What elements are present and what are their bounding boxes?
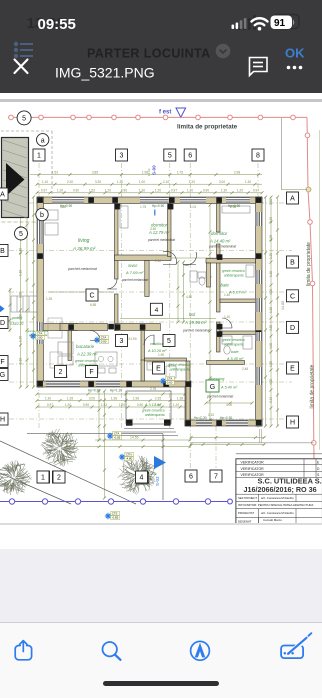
svg-text:PARTER LOCUINTA: PARTER LOCUINTA xyxy=(87,47,211,61)
svg-text:OK: OK xyxy=(285,46,305,61)
svg-text:baie: baie xyxy=(221,283,230,288)
svg-text:A 3.12 m²: A 3.12 m² xyxy=(144,403,162,407)
svg-text:Hp=0.90: Hp=0.90 xyxy=(152,204,164,208)
svg-text:2.10: 2.10 xyxy=(163,180,169,184)
svg-text:arh. Constanca M.Danillu: arh. Constanca M.Danillu xyxy=(261,511,294,515)
svg-text:1.75: 1.75 xyxy=(140,205,146,209)
svg-text:0.97: 0.97 xyxy=(41,189,47,193)
svg-text:parchet melaminat: parchet melaminat xyxy=(67,267,98,271)
svg-text:E: E xyxy=(156,366,161,373)
svg-text:1: 1 xyxy=(41,475,45,482)
svg-text:a: a xyxy=(41,137,45,144)
svg-text:1.30: 1.30 xyxy=(221,189,227,193)
svg-text:4.00: 4.00 xyxy=(269,289,273,295)
svg-text:1.75: 1.75 xyxy=(177,170,183,174)
svg-text:S-03: S-03 xyxy=(155,476,160,486)
svg-text:1.30: 1.30 xyxy=(45,397,51,401)
svg-text:2.60: 2.60 xyxy=(155,259,161,263)
svg-text:G: G xyxy=(0,372,5,379)
svg-text:2.30: 2.30 xyxy=(67,180,73,184)
svg-text:gresie ceramica: gresie ceramica xyxy=(142,409,165,413)
svg-text:1.30: 1.30 xyxy=(19,336,23,342)
svg-text:7: 7 xyxy=(214,474,218,481)
svg-text:0.00: 0.00 xyxy=(167,381,173,385)
svg-text:5: 5 xyxy=(167,338,171,345)
svg-text:1.52: 1.52 xyxy=(89,189,95,193)
svg-text:3.85: 3.85 xyxy=(269,199,273,205)
svg-text:S-09: S-09 xyxy=(152,165,157,175)
svg-text:1.20: 1.20 xyxy=(269,361,273,367)
svg-text:1.20: 1.20 xyxy=(65,403,71,407)
svg-text:2.10: 2.10 xyxy=(208,413,214,417)
svg-text:4.80: 4.80 xyxy=(60,205,66,209)
svg-text:4: 4 xyxy=(155,307,159,314)
svg-text:1: 1 xyxy=(37,153,41,160)
svg-text:0.90: 0.90 xyxy=(121,189,127,193)
svg-text:H: H xyxy=(290,420,295,427)
svg-text:F: F xyxy=(89,369,93,376)
svg-text:6: 6 xyxy=(188,153,192,160)
svg-text:1.01: 1.01 xyxy=(190,205,196,209)
svg-text:Cernatii Marcu: Cernatii Marcu xyxy=(263,518,282,522)
svg-text:A 22.39 m²: A 22.39 m² xyxy=(76,352,98,357)
svg-text:IMG_5321.PNG: IMG_5321.PNG xyxy=(55,65,155,81)
svg-text:1.20: 1.20 xyxy=(187,189,193,193)
svg-text:VERIFICATOR: VERIFICATOR xyxy=(241,460,265,464)
svg-text:parchet melaminat: parchet melaminat xyxy=(121,278,148,282)
svg-text:1.10: 1.10 xyxy=(42,180,48,184)
svg-text:living: living xyxy=(78,238,90,244)
svg-text:parchet melaminat: parchet melaminat xyxy=(182,329,211,333)
svg-text:b: b xyxy=(40,212,44,219)
svg-text:1.20: 1.20 xyxy=(155,189,161,193)
svg-text:4.00: 4.00 xyxy=(269,343,273,349)
svg-text:1.30: 1.30 xyxy=(245,180,251,184)
svg-text:0.97: 0.97 xyxy=(47,403,53,407)
svg-text:14.55: 14.55 xyxy=(130,436,139,440)
svg-text:parchet melaminat: parchet melaminat xyxy=(206,395,233,399)
svg-text:-0.05: -0.05 xyxy=(114,436,121,440)
svg-text:2.98: 2.98 xyxy=(230,205,236,209)
svg-text:vestibul: vestibul xyxy=(150,341,164,346)
svg-text:1.38: 1.38 xyxy=(177,397,183,401)
svg-text:A 7.09 m²: A 7.09 m² xyxy=(125,270,144,275)
svg-text:6.85: 6.85 xyxy=(90,303,96,307)
svg-text:2.45: 2.45 xyxy=(269,217,273,223)
svg-text:4: 4 xyxy=(140,475,144,482)
svg-text:podest: podest xyxy=(11,316,23,320)
svg-text:1.00: 1.00 xyxy=(139,180,145,184)
svg-text:0.90: 0.90 xyxy=(203,189,209,193)
svg-text:F: F xyxy=(0,359,4,366)
svg-text:J16/2066/2016; RO 36: J16/2066/2016; RO 36 xyxy=(244,485,317,494)
svg-text:1.20: 1.20 xyxy=(269,307,273,313)
svg-text:3.00: 3.00 xyxy=(219,180,225,184)
svg-text:A 5.40 m²: A 5.40 m² xyxy=(220,386,238,390)
svg-text:Hs=C.30: Hs=C.30 xyxy=(194,416,207,420)
svg-text:1.20: 1.20 xyxy=(237,189,243,193)
svg-text:antiderapanta: antiderapanta xyxy=(224,343,244,347)
svg-text:A 19.96 m²: A 19.96 m² xyxy=(184,320,207,325)
svg-text:1.40: 1.40 xyxy=(224,293,230,297)
svg-text:14.85: 14.85 xyxy=(281,301,285,310)
svg-text:1.90: 1.90 xyxy=(158,353,164,357)
svg-text:He=0.30: He=0.30 xyxy=(220,416,232,420)
svg-text:B: B xyxy=(0,248,5,255)
svg-text:gresie ceramica: gresie ceramica xyxy=(222,338,245,342)
svg-text:5: 5 xyxy=(22,116,26,123)
svg-text:1.20: 1.20 xyxy=(269,253,273,259)
svg-text:1.10: 1.10 xyxy=(19,270,23,276)
svg-text:dormitor: dormitor xyxy=(211,231,228,236)
svg-text:14.02: 14.02 xyxy=(147,168,151,176)
svg-text:0.90: 0.90 xyxy=(137,403,143,407)
svg-text:1.05: 1.05 xyxy=(269,235,273,241)
svg-text:4.00: 4.00 xyxy=(226,403,232,407)
svg-text:Hp=1.20: Hp=1.20 xyxy=(110,389,122,393)
svg-text:E: E xyxy=(290,366,295,373)
svg-text:91: 91 xyxy=(274,18,286,29)
svg-text:H: H xyxy=(0,417,5,424)
svg-text:A: A xyxy=(290,196,295,203)
svg-text:0.00: 0.00 xyxy=(37,336,43,340)
svg-text:0.90: 0.90 xyxy=(83,403,89,407)
svg-text:A 14.40 m²: A 14.40 m² xyxy=(209,239,231,244)
svg-text:C: C xyxy=(89,293,94,300)
svg-text:D: D xyxy=(0,320,5,327)
svg-text:D: D xyxy=(290,325,295,332)
svg-text:2.45: 2.45 xyxy=(269,397,273,403)
svg-text:C: C xyxy=(290,293,295,300)
svg-text:parchet melaminat: parchet melaminat xyxy=(147,238,176,242)
svg-text:A 5.45 m²: A 5.45 m² xyxy=(226,357,244,361)
svg-text:0.83/2.20: 0.83/2.20 xyxy=(10,322,24,326)
svg-text:3.50: 3.50 xyxy=(150,227,156,231)
svg-text:2.98: 2.98 xyxy=(234,170,240,174)
svg-text:1.36: 1.36 xyxy=(111,397,117,401)
svg-text:A 5.07 m²: A 5.07 m² xyxy=(228,290,247,295)
svg-text:arh. Constanca M.Danillu: arh. Constanca M.Danillu xyxy=(261,496,294,500)
svg-text:2: 2 xyxy=(57,475,61,482)
svg-text:4.50: 4.50 xyxy=(186,295,192,299)
svg-text:1.30: 1.30 xyxy=(19,292,23,298)
svg-text:-0.85: -0.85 xyxy=(112,516,119,520)
svg-text:3: 3 xyxy=(120,338,124,345)
svg-text:1.52: 1.52 xyxy=(101,403,107,407)
svg-text:4.00: 4.00 xyxy=(269,379,273,385)
svg-text:1.30: 1.30 xyxy=(139,189,145,193)
svg-text:1.96: 1.96 xyxy=(133,397,139,401)
svg-text:5: 5 xyxy=(19,231,23,238)
svg-text:1.10: 1.10 xyxy=(19,248,23,254)
svg-text:G: G xyxy=(210,384,215,391)
svg-text:limita de proprietate: limita de proprietate xyxy=(310,364,316,408)
svg-text:limita de proprietate: limita de proprietate xyxy=(306,242,312,286)
svg-text:3.85: 3.85 xyxy=(269,325,273,331)
svg-text:B: B xyxy=(290,260,295,267)
svg-text:3.00: 3.00 xyxy=(89,397,95,401)
svg-text:5W92: 5W92 xyxy=(128,264,137,268)
svg-text:f est: f est xyxy=(159,110,171,116)
svg-text:0.90: 0.90 xyxy=(73,189,79,193)
svg-text:bucatarie: bucatarie xyxy=(76,344,95,349)
svg-text:INTOCMITOR: PENTRU SPECIALITAT: INTOCMITOR: PENTRU SPECIALITATEA ARHITEC… xyxy=(238,503,314,507)
svg-text:2: 2 xyxy=(59,369,63,376)
svg-text:0.97: 0.97 xyxy=(253,189,259,193)
svg-text:Hp=0.90: Hp=0.90 xyxy=(88,389,100,393)
svg-text:2.35: 2.35 xyxy=(155,397,161,401)
svg-text:5: 5 xyxy=(168,153,172,160)
svg-text:3.85: 3.85 xyxy=(92,170,98,174)
svg-text:baie: baie xyxy=(231,349,239,354)
svg-text:A 36.99 m²: A 36.99 m² xyxy=(72,246,96,251)
svg-text:1.20: 1.20 xyxy=(57,189,63,193)
svg-text:1.20: 1.20 xyxy=(173,403,179,407)
svg-text:3.30: 3.30 xyxy=(95,180,101,184)
svg-text:A: A xyxy=(0,192,5,199)
svg-text:1.35: 1.35 xyxy=(67,397,73,401)
svg-text:antiderapanta: antiderapanta xyxy=(145,413,165,417)
svg-text:PROIECTAT: PROIECTAT xyxy=(238,511,254,515)
svg-text:VERIFICATOR: VERIFICATOR xyxy=(241,467,265,471)
svg-text:0.00: 0.00 xyxy=(101,340,107,344)
svg-text:1.30: 1.30 xyxy=(117,180,123,184)
svg-text:gresie ceramica: gresie ceramica xyxy=(168,363,191,367)
svg-text:gresie ceramica: gresie ceramica xyxy=(222,269,245,273)
svg-text:3: 3 xyxy=(120,153,124,160)
svg-text:limita de proprietate: limita de proprietate xyxy=(177,124,238,131)
svg-text:1.20: 1.20 xyxy=(105,189,111,193)
svg-text:0.97: 0.97 xyxy=(171,189,177,193)
svg-text:antiderapanta: antiderapanta xyxy=(224,274,244,278)
svg-text:1.10: 1.10 xyxy=(19,358,23,364)
svg-text:2.76: 2.76 xyxy=(150,387,156,391)
svg-text:6: 6 xyxy=(189,474,193,481)
svg-text:09:55: 09:55 xyxy=(38,16,76,33)
svg-text:1.10: 1.10 xyxy=(224,315,230,319)
svg-text:1.35: 1.35 xyxy=(46,297,52,301)
svg-text:hol: hol xyxy=(189,312,196,317)
svg-text:SEF PROIECT: SEF PROIECT xyxy=(238,496,258,500)
svg-text:1.20: 1.20 xyxy=(189,180,195,184)
svg-text:antiderapanta: antiderapanta xyxy=(170,368,190,372)
svg-text:1.20: 1.20 xyxy=(269,271,273,277)
svg-text:2.46: 2.46 xyxy=(242,367,248,371)
svg-text:parchet melaminat: parchet melaminat xyxy=(208,245,237,249)
svg-text:1.20: 1.20 xyxy=(119,403,125,407)
svg-text:-4.80: -4.80 xyxy=(126,457,133,461)
svg-text:8: 8 xyxy=(256,153,260,160)
svg-text:1.52: 1.52 xyxy=(52,170,58,174)
